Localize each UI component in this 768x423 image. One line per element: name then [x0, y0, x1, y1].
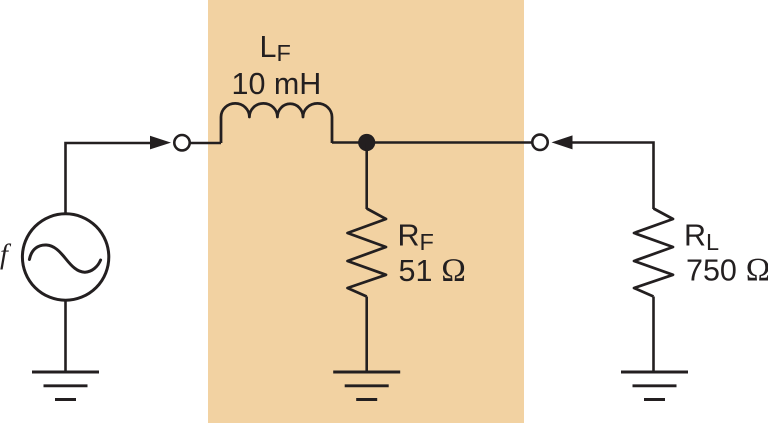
ground (RF)	[333, 372, 400, 400]
filter region shading	[208, 0, 524, 423]
arrow into filter input	[150, 136, 171, 150]
resistor RL	[634, 209, 673, 297]
node: open output terminal	[532, 135, 547, 150]
inductor LF	[221, 103, 332, 143]
wire RL to ground	[652, 297, 655, 373]
wire RF to ground	[365, 297, 368, 373]
ground (RL)	[621, 372, 688, 400]
resistor RF	[348, 209, 387, 297]
junction node	[358, 134, 375, 151]
wire load top	[572, 143, 654, 210]
wire input terminal to inductor	[191, 142, 222, 145]
svg-text:RL: RL	[684, 218, 719, 255]
svg-text:51 Ω: 51 Ω	[399, 253, 467, 289]
wire inductor to output terminal	[332, 141, 532, 144]
ground (source)	[32, 372, 99, 400]
sine wave inside source	[29, 245, 100, 272]
svg-text:10 mH: 10 mH	[232, 67, 322, 101]
source V1 (AC)	[22, 214, 108, 300]
wire source to ground	[64, 302, 67, 373]
wire junction down to RF	[365, 143, 368, 210]
svg-text:f: f	[0, 240, 12, 271]
wire from source top to arrow	[66, 143, 153, 214]
node: open input terminal	[174, 135, 189, 150]
arrow from load	[552, 135, 573, 149]
svg-text:750 Ω: 750 Ω	[686, 253, 768, 289]
